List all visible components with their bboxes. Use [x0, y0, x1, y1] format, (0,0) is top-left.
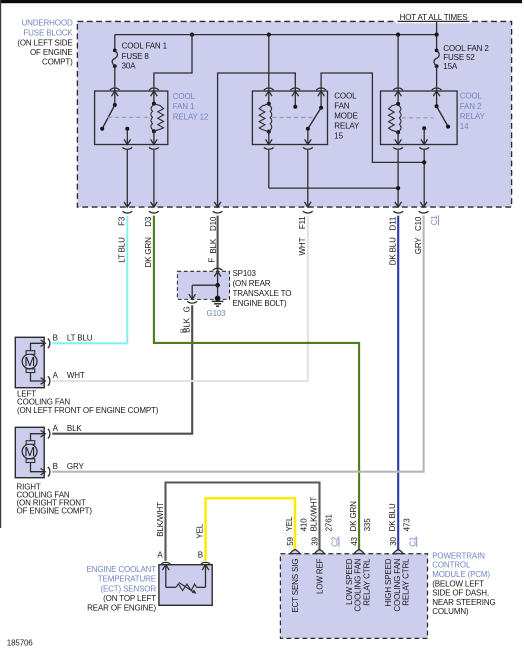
- wire BLK D10 to SP103: [217, 216, 219, 272]
- pin bump PCM at x=295.0: [290, 550, 300, 554]
- svg-text:DK GRN: DK GRN: [144, 237, 153, 268]
- relay 14 coil terminal: [393, 88, 403, 90]
- svg-text:F11: F11: [298, 216, 307, 229]
- connector D10 at fuse block edge: [214, 202, 221, 207]
- svg-text:410: 410: [300, 518, 309, 532]
- relay 12 terminal from fuse 8: [110, 88, 120, 90]
- relay 15 coil bottom terminal: [266, 139, 273, 144]
- svg-text:RELAY: RELAY: [460, 112, 486, 121]
- motor M right cooling fan: [15, 427, 44, 477]
- wire bus to fuse 8: [114, 35, 116, 49]
- svg-text:COOL: COOL: [334, 91, 357, 100]
- module PCM box: [280, 554, 427, 639]
- svg-text:B: B: [198, 551, 203, 560]
- relay 12 coil bottom terminal to D3: [151, 139, 158, 144]
- svg-text:YEL: YEL: [196, 523, 205, 538]
- relay K15 COOL FAN MODE box: [252, 91, 327, 145]
- svg-text:(ECT) SENSOR: (ECT) SENSOR: [100, 584, 156, 593]
- wire LT BLU F3 to left fan B: [52, 216, 127, 344]
- svg-text:B: B: [53, 462, 58, 471]
- node bus junction to relay 14 coil: [396, 33, 400, 37]
- svg-text:COOL FAN 1: COOL FAN 1: [122, 42, 168, 51]
- svg-text:RELAY 12: RELAY 12: [173, 112, 209, 121]
- relay 14 common terminal and switch: [432, 88, 442, 90]
- svg-text:WHT: WHT: [298, 237, 307, 255]
- svg-text:30: 30: [389, 537, 398, 546]
- relay 15 switch output terminal to F11: [305, 139, 312, 144]
- wire BLK SP103 to right fan A: [52, 305, 192, 434]
- svg-text:DK BLU: DK BLU: [388, 503, 397, 531]
- svg-text:2761: 2761: [324, 514, 333, 532]
- ground G103: [217, 285, 219, 298]
- terminal A ECT: [161, 562, 171, 564]
- wire right fan motor to terminal B: [31, 463, 45, 472]
- fuse F8 COOL FAN 1 30A: [113, 49, 117, 53]
- svg-text:GRY: GRY: [414, 237, 423, 255]
- node HOT AT ALL TIMES: [396, 20, 471, 24]
- svg-text:DK GRN: DK GRN: [349, 501, 358, 532]
- node bus junction to relay 15 coil: [267, 33, 271, 37]
- svg-text:ECT SENS SIG: ECT SENS SIG: [291, 559, 300, 613]
- svg-text:COMPT): COMPT): [42, 58, 73, 67]
- svg-text:FUSE BLOCK: FUSE BLOCK: [23, 28, 73, 37]
- svg-text:OF ENGINE COMPT): OF ENGINE COMPT): [17, 507, 93, 516]
- svg-text:YEL: YEL: [285, 516, 294, 531]
- svg-text:RELAY: RELAY: [334, 122, 360, 131]
- svg-text:M: M: [24, 444, 35, 459]
- svg-text:A: A: [53, 371, 59, 380]
- svg-text:FAN: FAN: [334, 101, 349, 110]
- svg-text:BLK: BLK: [209, 238, 218, 253]
- svg-text:FUSE 8: FUSE 8: [122, 52, 150, 61]
- terminal B left fan: [41, 340, 46, 347]
- svg-text:B: B: [53, 334, 58, 343]
- wire fuse 8 to relay 12 switch: [114, 66, 116, 91]
- wire bus to relay 14 coil: [397, 35, 399, 91]
- wire bus to fuse 52: [436, 35, 438, 49]
- svg-text:14: 14: [460, 122, 469, 131]
- svg-text:COOL FAN 2: COOL FAN 2: [443, 44, 489, 53]
- node bus junction to relay 12 coil: [190, 33, 194, 37]
- connector D11 at fuse block edge: [395, 202, 402, 207]
- relay 15 coil terminal: [264, 88, 274, 90]
- wire power bus: [115, 34, 437, 36]
- svg-text:OF ENGINE: OF ENGINE: [30, 48, 73, 57]
- svg-text:15A: 15A: [443, 62, 458, 71]
- svg-text:HOT AT ALL TIMES: HOT AT ALL TIMES: [400, 13, 468, 22]
- svg-text:COLUMN): COLUMN): [432, 607, 469, 616]
- svg-text:WHT: WHT: [67, 371, 85, 380]
- connector into SP103: [213, 268, 223, 270]
- svg-text:F: F: [208, 258, 217, 263]
- svg-text:(ON LEFT FRONT OF ENGINE COMPT: (ON LEFT FRONT OF ENGINE COMPT): [17, 406, 159, 415]
- svg-text:ENGINE COOLANT: ENGINE COOLANT: [87, 565, 157, 574]
- wire BLK/WHT ECT A to PCM 39: [166, 483, 320, 561]
- connector F3 at fuse block edge: [124, 202, 131, 207]
- wire right fan motor to terminal A: [31, 434, 45, 441]
- svg-text:BLK/WHT: BLK/WHT: [309, 497, 318, 532]
- svg-text:(ON LEFT SIDE: (ON LEFT SIDE: [17, 38, 72, 47]
- svg-text:BLK: BLK: [67, 424, 82, 433]
- sensor ECT box: [159, 565, 212, 606]
- wire GRY C10 to right fan B: [52, 216, 423, 472]
- wire left fan motor to terminal A: [31, 373, 45, 382]
- terminal A left fan: [41, 378, 46, 385]
- connector C10 at fuse block edge: [420, 202, 427, 207]
- svg-text:MODE: MODE: [334, 112, 357, 121]
- wire hot feed to bus: [436, 21, 438, 34]
- wire DK BLU D11 to PCM 30: [397, 216, 399, 551]
- relay 15 coil: [268, 91, 270, 104]
- relay 12 coil terminal: [149, 88, 159, 90]
- connector out of SP103: [189, 294, 196, 299]
- relay 12 output contact: [125, 127, 129, 131]
- fuse F52 COOL FAN 2 15A: [435, 49, 439, 53]
- svg-text:RELAY CTRL: RELAY CTRL: [362, 558, 371, 606]
- svg-text:(ON REAR: (ON REAR: [233, 279, 271, 288]
- svg-text:REAR OF ENGINE): REAR OF ENGINE): [87, 604, 156, 613]
- svg-text:UNDERHOOD: UNDERHOOD: [21, 19, 72, 28]
- svg-text:30A: 30A: [122, 62, 137, 71]
- svg-text:POWERTRAIN: POWERTRAIN: [432, 551, 485, 560]
- svg-text:C2: C2: [331, 536, 340, 547]
- relay 14 output terminal to C10: [421, 139, 428, 144]
- svg-text:LOW REF: LOW REF: [316, 558, 325, 594]
- svg-text:A: A: [157, 551, 163, 560]
- svg-text:C1: C1: [430, 215, 439, 226]
- left border line: [0, 0, 2, 528]
- relay 12 coil: [153, 91, 155, 104]
- svg-text:FAN 1: FAN 1: [173, 102, 195, 111]
- pin bump PCM at x=319.5: [314, 550, 324, 554]
- svg-text:BLK/WHT: BLK/WHT: [156, 502, 165, 537]
- pin bump PCM at x=398.2: [393, 550, 403, 554]
- terminal B ECT: [201, 562, 211, 564]
- svg-text:C10: C10: [414, 216, 423, 231]
- svg-text:185706: 185706: [7, 639, 33, 648]
- svg-text:DK BLU: DK BLU: [388, 237, 397, 265]
- wire bus to relay 15 coil: [268, 35, 270, 91]
- wire relay 15 NC terminal to D10 ground path: [218, 73, 296, 207]
- relay 15 link dashes: [272, 117, 314, 119]
- svg-text:LT BLU: LT BLU: [118, 237, 127, 263]
- svg-text:NEAR STEERING: NEAR STEERING: [432, 598, 495, 607]
- svg-text:F3: F3: [117, 216, 126, 226]
- relay K14 COOL FAN 2 box: [381, 91, 458, 145]
- svg-text:M: M: [24, 354, 35, 369]
- svg-text:TRANSAXLE TO: TRANSAXLE TO: [233, 289, 292, 298]
- svg-text:SP103: SP103: [233, 269, 257, 278]
- terminal A right fan: [41, 430, 46, 437]
- svg-text:RELAY CTRL: RELAY CTRL: [401, 558, 410, 606]
- wire relay 15 common to relay 14 output junction: [321, 73, 424, 162]
- svg-text:D10: D10: [209, 216, 218, 231]
- pin bump PCM at x=359.1: [354, 550, 364, 554]
- underhood fuse block outline: [77, 21, 511, 207]
- svg-text:A: A: [53, 424, 59, 433]
- svg-text:39: 39: [311, 537, 320, 546]
- relay 15 NC contact stub: [291, 88, 301, 90]
- svg-text:BLK: BLK: [182, 317, 191, 332]
- top border bar: [0, 0, 522, 3]
- node bus junction at fuse 52: [435, 33, 439, 37]
- svg-text:GRY: GRY: [67, 462, 85, 471]
- svg-text:ENGINE BOLT): ENGINE BOLT): [233, 299, 288, 308]
- relay 12 bottom terminal to F3: [124, 139, 131, 144]
- svg-text:FAN 2: FAN 2: [460, 102, 482, 111]
- relay 14 coil: [397, 91, 399, 104]
- svg-text:C1: C1: [408, 536, 417, 547]
- svg-text:LT BLU: LT BLU: [67, 334, 93, 343]
- relay 12 switch: [114, 91, 116, 105]
- relay 14 output contact: [422, 126, 426, 130]
- relay 12 link dashes: [108, 116, 148, 118]
- svg-text:COOL: COOL: [460, 92, 483, 101]
- wire bus to relay 12 coil: [154, 35, 192, 91]
- wire WHT F11 to left fan A: [52, 216, 308, 381]
- thermistor ECT: [165, 566, 167, 588]
- connector D3 at fuse block edge: [151, 202, 158, 207]
- svg-text:G: G: [182, 306, 191, 312]
- wire fuse 52 to relay 14 switch: [436, 66, 438, 91]
- wire left fan motor to terminal B: [31, 343, 45, 350]
- svg-text:473: 473: [402, 518, 411, 532]
- relay 14 link dashes: [402, 117, 434, 119]
- svg-text:(ON TOP LEFT: (ON TOP LEFT: [103, 594, 156, 603]
- svg-text:MODULE (PCM): MODULE (PCM): [432, 570, 490, 579]
- node junction relay14 output / relay15 common: [422, 160, 426, 164]
- svg-text:(BELOW LEFT: (BELOW LEFT: [432, 579, 484, 588]
- svg-text:FUSE 52: FUSE 52: [443, 53, 475, 62]
- wire YEL ECT B to PCM 59: [206, 498, 296, 561]
- svg-text:SIDE OF DASH,: SIDE OF DASH,: [432, 589, 489, 598]
- splice SP103 box: [177, 271, 229, 299]
- svg-text:COOL: COOL: [173, 92, 196, 101]
- relay 14 coil bottom terminal to D11: [395, 139, 402, 144]
- svg-text:CONTROL: CONTROL: [432, 561, 471, 570]
- svg-text:43: 43: [350, 537, 359, 546]
- svg-text:D3: D3: [144, 216, 153, 227]
- wire SP103 internal: [217, 271, 219, 285]
- svg-text:D11: D11: [388, 216, 397, 230]
- svg-text:TEMPERATURE: TEMPERATURE: [98, 575, 156, 584]
- svg-text:G103: G103: [207, 309, 227, 318]
- svg-text:15: 15: [334, 132, 343, 141]
- node junction coil grounds to D11: [269, 187, 398, 189]
- motor M left cooling fan: [15, 337, 44, 387]
- svg-text:335: 335: [363, 518, 372, 532]
- relay 15 common terminal and switch: [316, 88, 326, 90]
- wire DK GRN D3 to PCM 43: [154, 216, 359, 551]
- svg-text:59: 59: [286, 537, 295, 546]
- connector F11 at fuse block edge: [305, 202, 312, 207]
- terminal B right fan: [41, 468, 46, 475]
- relay K12 COOL FAN 1 box: [95, 91, 168, 145]
